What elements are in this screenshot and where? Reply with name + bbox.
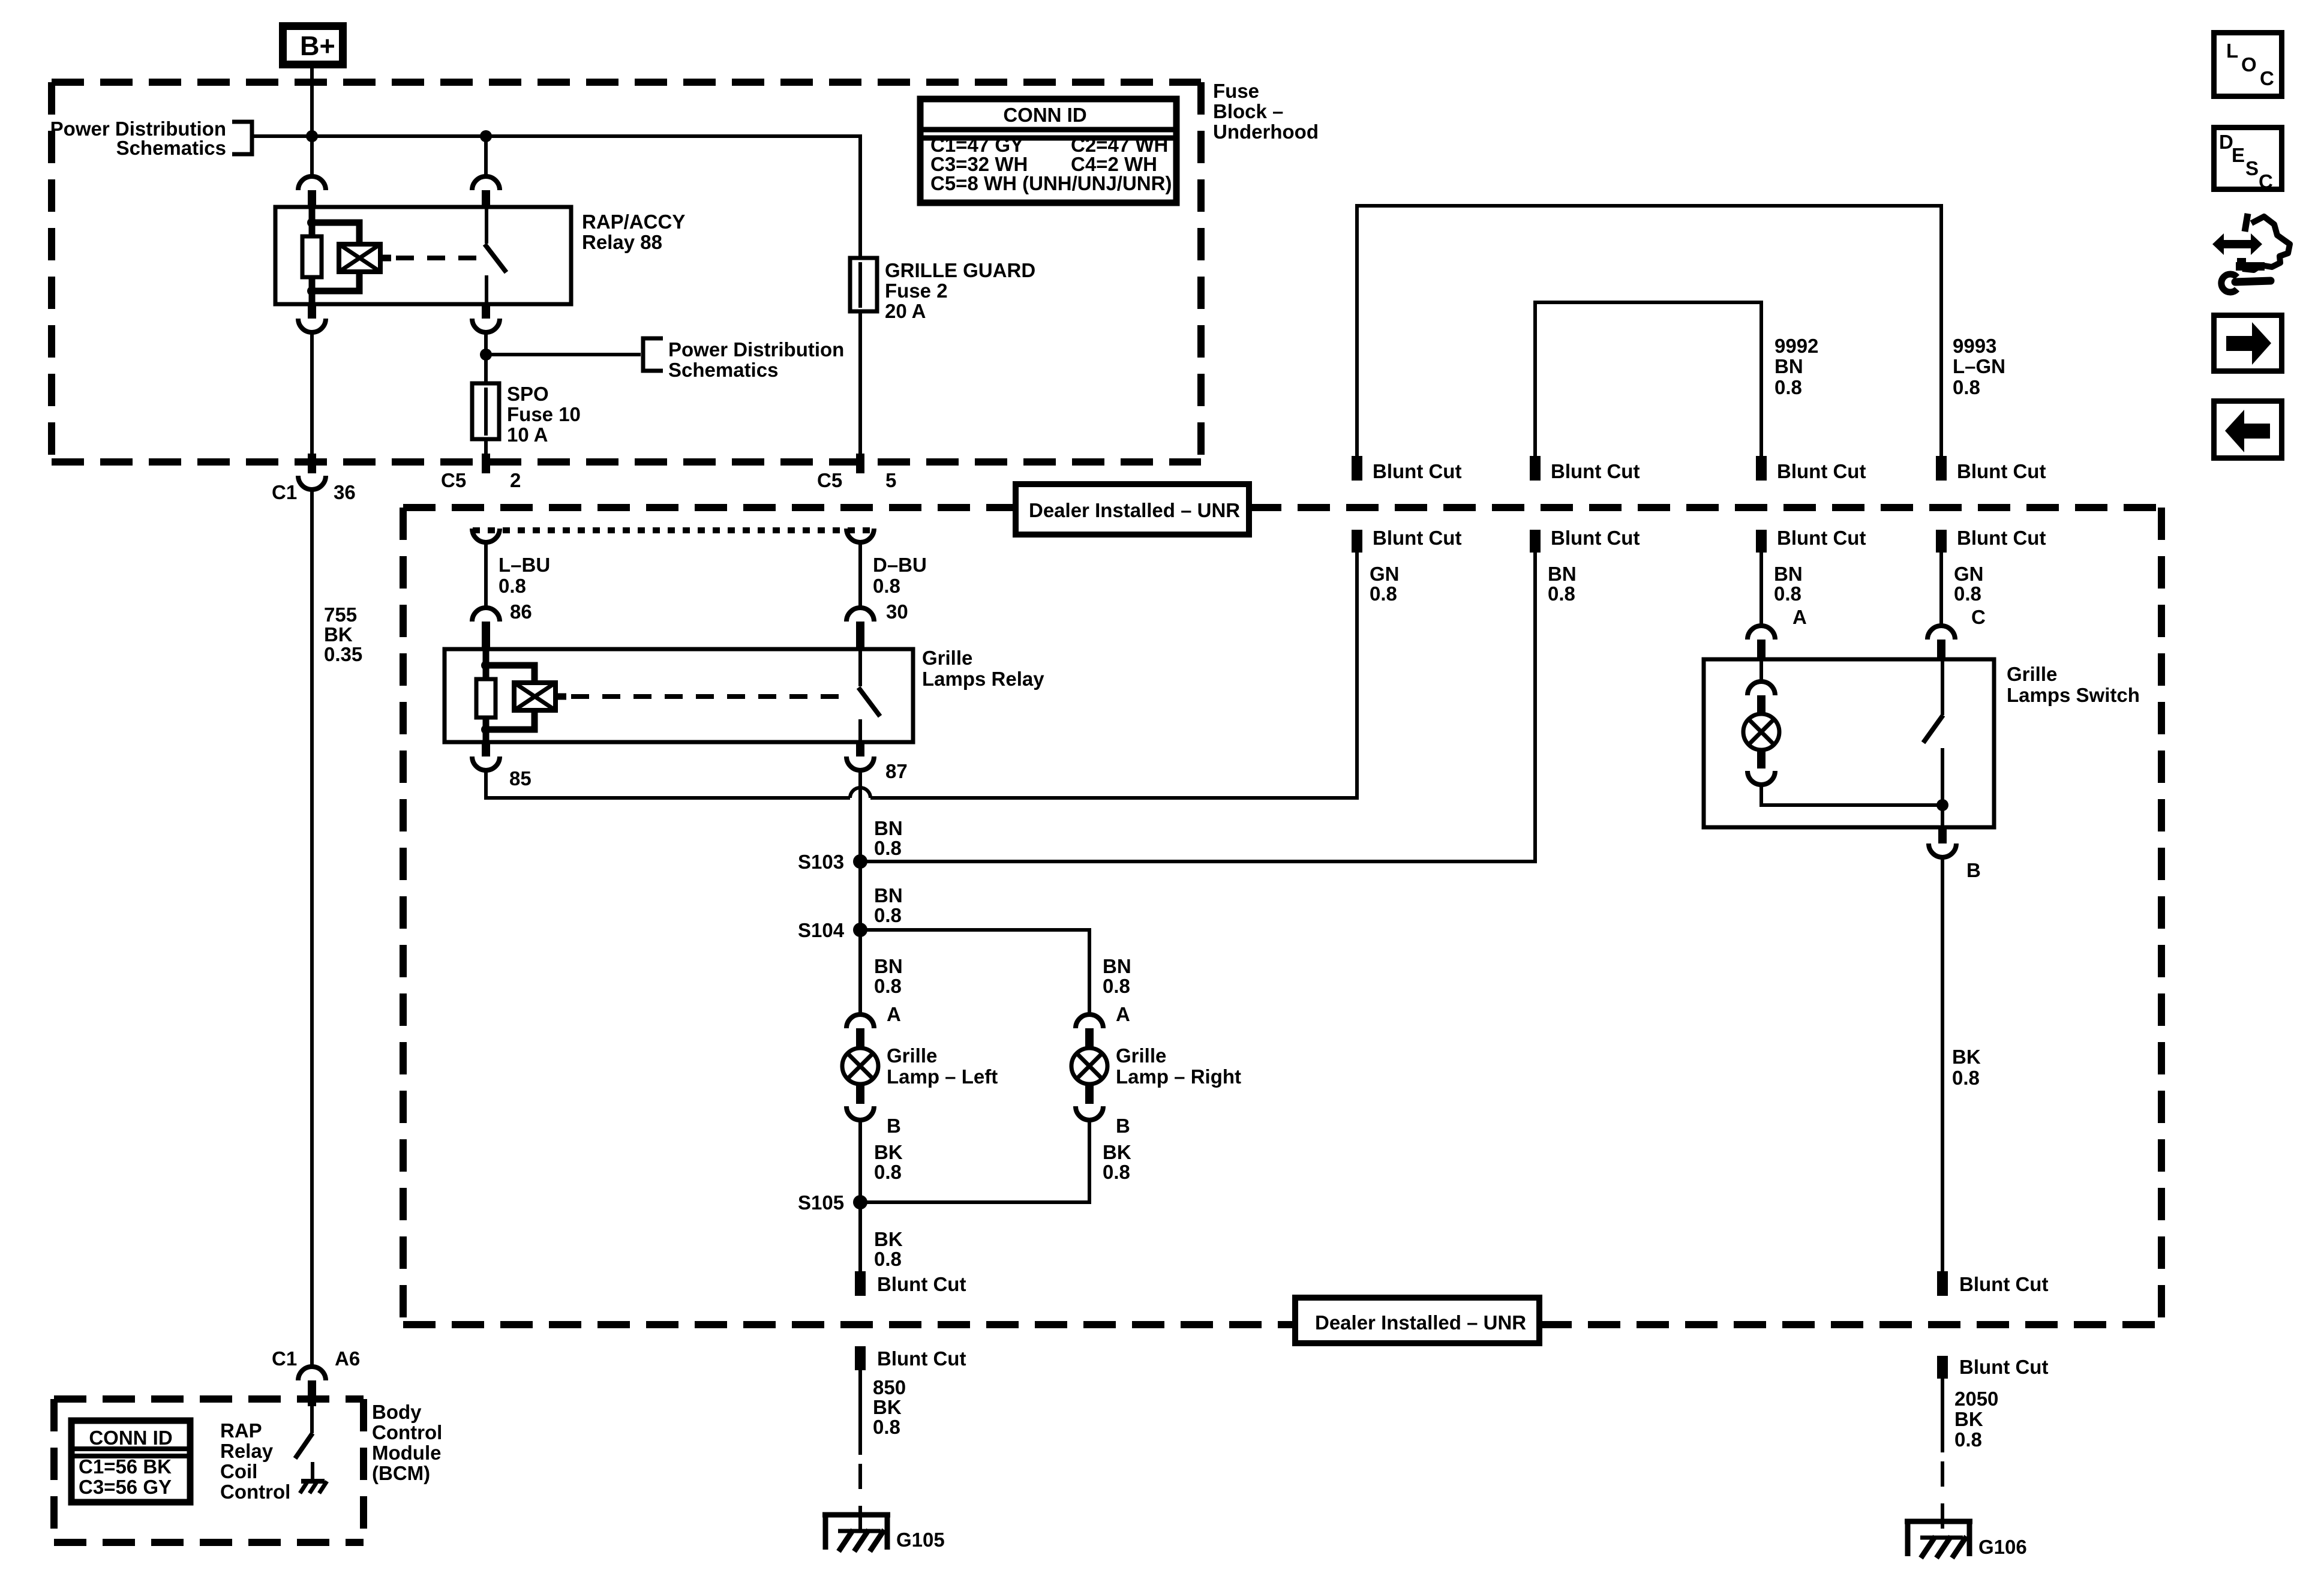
svg-text:Grille: Grille: [887, 1044, 937, 1067]
svg-text:0.8: 0.8: [1774, 583, 1801, 605]
label GRILLE GUARD Fuse 2 20 A: [885, 259, 1035, 322]
wire pin 87 to S103: [858, 770, 862, 861]
wire pin 85 to GN blunt cut: [486, 553, 1357, 798]
Grille relay switch: [858, 649, 880, 742]
svg-text:Blunt Cut: Blunt Cut: [1959, 1356, 2048, 1378]
wire RAP coil low side down to C1-36: [310, 332, 314, 454]
blunt cut terminal col3 lower: [1756, 527, 1866, 553]
ground (BCM internal): [300, 1481, 327, 1493]
svg-text:Blunt Cut: Blunt Cut: [1373, 527, 1461, 549]
icon LOC button: [2214, 33, 2282, 97]
label Grille Lamps Switch: [2007, 663, 2140, 706]
wire S103 to S104: [858, 861, 862, 930]
label D-BU 0.8: [873, 554, 927, 597]
svg-text:Control: Control: [220, 1481, 290, 1503]
node rail/relay30 junction: [480, 130, 492, 142]
connector socket C5-5 dealer side: [846, 529, 874, 542]
RAP relay control dashed link: [380, 255, 480, 262]
label SPO Fuse 10 10 A: [507, 383, 581, 446]
icon diagnostic wrench: [2212, 214, 2290, 292]
connector pin 85: [472, 742, 500, 770]
splice S105: [853, 1195, 867, 1209]
switch indicator bulb: [1743, 659, 1942, 805]
lamp Grille Lamp - Right: [1071, 1048, 1107, 1084]
label 2050 BK 0.8: [1954, 1388, 1998, 1451]
blunt cut terminal col4 lower: [1936, 527, 2046, 553]
svg-text:850: 850: [873, 1376, 906, 1398]
svg-text:GN: GN: [1954, 563, 1984, 585]
splice S104: [853, 923, 867, 937]
label C5 5: [817, 469, 896, 491]
svg-text:C5: C5: [817, 469, 842, 491]
svg-text:Coil: Coil: [220, 1460, 257, 1482]
svg-text:BN: BN: [1774, 355, 1803, 377]
node SPO branch junction: [480, 349, 492, 361]
wire col3 to switch pin A: [1759, 553, 1763, 626]
connector pin C1-A6: [298, 1367, 326, 1406]
label BN 0.8 col3: [1774, 563, 1803, 605]
svg-text:S104: S104: [798, 919, 845, 941]
connector pin below RAP relay (switch side): [472, 304, 500, 332]
label BN 0.8 (S103-S104): [874, 884, 903, 926]
svg-text:Relay 88: Relay 88: [582, 231, 662, 253]
Grille relay coil winding branch: [486, 665, 535, 730]
ground G105: [822, 1515, 890, 1551]
label Grille Lamps Relay: [922, 647, 1044, 690]
Body Control Module dashed box: [54, 1399, 364, 1542]
svg-text:2: 2: [510, 469, 521, 491]
label C1 A6: [272, 1347, 360, 1370]
connector pin 30: [846, 608, 874, 649]
svg-text:C1: C1: [272, 481, 297, 503]
bracket left PDS: [232, 122, 252, 154]
bracket right PDS: [643, 338, 663, 371]
RAP relay switch: [485, 207, 506, 304]
wire S105 to blunt cut: [858, 1202, 862, 1271]
wire S104 to left lamp: [858, 930, 862, 1014]
label box Dealer Installed - UNR (bottom): [1295, 1298, 1539, 1343]
svg-text:5: 5: [885, 469, 896, 491]
label Grille Lamp - Left: [887, 1044, 998, 1088]
svg-text:GRILLE GUARD: GRILLE GUARD: [885, 259, 1035, 281]
wire right lamp B to S105: [860, 1120, 1089, 1202]
splice S103: [853, 854, 867, 869]
svg-text:Fuse: Fuse: [1213, 80, 1259, 102]
svg-text:Grille: Grille: [1116, 1044, 1166, 1067]
svg-text:Blunt Cut: Blunt Cut: [1957, 460, 2046, 482]
svg-text:0.8: 0.8: [874, 904, 902, 926]
wire 9993 L-GN loop (outer U): [1357, 206, 1941, 456]
wire SPO fuse to C5-2: [484, 439, 488, 454]
node grille coil top: [481, 661, 491, 670]
RAP relay coil resistor: [302, 207, 322, 304]
label Fuse Block - Underhood: [1213, 80, 1319, 143]
svg-text:G106: G106: [1978, 1536, 2027, 1558]
node RAP coil bottom: [307, 286, 317, 296]
connector pin A left lamp: [846, 1014, 874, 1048]
CONN ID table (BCM): [71, 1421, 190, 1502]
svg-text:O: O: [2241, 53, 2257, 76]
svg-text:9993: 9993: [1953, 335, 1996, 357]
svg-text:A: A: [1116, 1003, 1130, 1025]
svg-text:S105: S105: [798, 1191, 844, 1214]
Grille relay coil resistor: [476, 649, 496, 742]
svg-text:L–GN: L–GN: [1953, 355, 2005, 377]
svg-text:BK: BK: [1954, 1408, 1983, 1430]
wire node to PDS bracket: [486, 353, 641, 356]
blunt cut terminal (S105 lead, inside box): [855, 1271, 966, 1296]
svg-text:CONN ID: CONN ID: [89, 1427, 172, 1449]
connector pin C1-36: [298, 454, 326, 490]
Fuse Block - Underhood dashed box: [52, 82, 1201, 462]
svg-text:Block –: Block –: [1213, 100, 1283, 122]
blunt cut terminal (ground lead 850, below box): [855, 1346, 966, 1370]
svg-text:L–BU: L–BU: [499, 554, 550, 576]
svg-text:Blunt Cut: Blunt Cut: [877, 1273, 966, 1295]
connector pin C5-5: [856, 454, 864, 473]
svg-text:C: C: [1971, 606, 1986, 628]
wire 9992 BN loop (inner U): [1535, 302, 1761, 456]
svg-text:GN: GN: [1370, 563, 1400, 585]
svg-text:B: B: [1966, 859, 1981, 881]
svg-text:A: A: [887, 1003, 901, 1025]
label BN 0.8 (left lamp): [874, 955, 903, 997]
label box Dealer Installed - UNR (top): [1016, 484, 1249, 535]
node grille coil bottom: [481, 725, 491, 734]
label BN 0.8 (right lamp): [1103, 955, 1131, 997]
svg-text:BK: BK: [1103, 1141, 1131, 1163]
svg-text:B: B: [1116, 1115, 1130, 1137]
icon back arrow button: [2214, 401, 2282, 458]
svg-text:0.8: 0.8: [1952, 1067, 1980, 1089]
wire S104 to right lamp: [860, 930, 1089, 1014]
svg-text:C1=56 BK: C1=56 BK: [79, 1455, 172, 1478]
connector pin B switch: [1929, 827, 1956, 857]
svg-text:Dealer Installed – UNR: Dealer Installed – UNR: [1315, 1311, 1526, 1334]
blunt cut terminal col2 upper: [1530, 456, 1640, 482]
svg-text:Grille: Grille: [2007, 663, 2057, 685]
svg-text:Blunt Cut: Blunt Cut: [1957, 527, 2046, 549]
label Power Distribution Schematics (right): [668, 338, 844, 381]
svg-text:0.8: 0.8: [1103, 1161, 1130, 1183]
connector pin C5-2: [482, 454, 490, 473]
svg-text:Blunt Cut: Blunt Cut: [1373, 460, 1461, 482]
svg-text:Blunt Cut: Blunt Cut: [877, 1347, 966, 1370]
wire L-BU to relay pin 86: [484, 542, 488, 608]
wire B+ to rail: [310, 68, 314, 176]
svg-text:9992: 9992: [1774, 335, 1818, 357]
blunt cut terminal col1 lower: [1352, 527, 1461, 553]
label BK 0.8 (left lamp): [874, 1141, 903, 1183]
svg-text:BN: BN: [1103, 955, 1131, 977]
label GN 0.8 col1: [1370, 563, 1400, 605]
svg-text:C1: C1: [272, 1347, 297, 1370]
svg-text:B+: B+: [300, 31, 335, 61]
svg-text:Blunt Cut: Blunt Cut: [1551, 527, 1640, 549]
svg-text:BK: BK: [1952, 1046, 1981, 1068]
label L-BU 0.8: [499, 554, 550, 597]
node rail/B+ junction: [306, 130, 318, 142]
label BK 0.8 (below S105): [874, 1228, 903, 1270]
svg-text:36: 36: [334, 481, 356, 503]
wire grille guard fuse to C5-5: [858, 311, 862, 454]
svg-text:0.8: 0.8: [499, 575, 526, 597]
svg-text:0.8: 0.8: [874, 1248, 902, 1270]
connector pin below RAP relay (coil side) to C1: [298, 304, 326, 332]
svg-text:S: S: [2245, 157, 2259, 179]
label RAP/ACCY Relay 88: [582, 211, 685, 253]
svg-text:Fuse 10: Fuse 10: [507, 403, 581, 425]
svg-text:BK: BK: [873, 1396, 902, 1418]
label Power Distribution Schematics (left): [50, 118, 226, 159]
Dealer Installed - UNR dashed box: [403, 508, 2161, 1325]
ground G106: [1905, 1521, 1972, 1558]
wire 850 BK to G105: [858, 1370, 862, 1531]
switch contact blade: [1923, 659, 1943, 827]
svg-text:BN: BN: [1774, 563, 1803, 585]
label BK 0.8 (right lamp): [1103, 1141, 1131, 1183]
svg-text:Body: Body: [372, 1401, 422, 1423]
svg-text:0.8: 0.8: [1774, 376, 1802, 398]
svg-text:Dealer Installed – UNR: Dealer Installed – UNR: [1029, 499, 1240, 521]
wire 2050 BK to G106: [1941, 1379, 1944, 1537]
svg-text:C3=56 GY: C3=56 GY: [79, 1476, 172, 1498]
svg-text:0.8: 0.8: [1953, 376, 1980, 398]
wire bus rail B+: [254, 136, 860, 258]
label 9993 L-GN 0.8: [1953, 335, 2005, 398]
label 9992 BN 0.8: [1774, 335, 1818, 398]
connector pin B right lamp: [1076, 1084, 1103, 1120]
RAP relay coil winding branch: [312, 223, 359, 291]
lamp Grille Lamp - Left: [842, 1048, 878, 1084]
icon DESC button: [2214, 128, 2282, 193]
label RAP Relay Coil Control: [220, 1419, 290, 1503]
svg-text:Grille: Grille: [922, 647, 972, 669]
wire switch B to blunt cut: [1941, 857, 1944, 1271]
connector pin 87: [846, 742, 874, 770]
svg-text:CONN ID: CONN ID: [1003, 104, 1086, 126]
svg-text:Fuse 2: Fuse 2: [885, 280, 948, 302]
wire col4 to switch pin C: [1939, 553, 1943, 626]
svg-text:C: C: [2260, 67, 2274, 89]
svg-text:BN: BN: [874, 817, 903, 839]
label BK 0.8 (switch B lead): [1952, 1046, 1981, 1089]
fuse SPO Fuse 10: [472, 383, 499, 439]
svg-text:0.8: 0.8: [873, 1416, 900, 1438]
svg-text:86: 86: [510, 601, 532, 623]
connector pin A right lamp: [1076, 1014, 1103, 1048]
svg-text:0.8: 0.8: [1954, 1428, 1982, 1451]
svg-text:E: E: [2232, 144, 2245, 166]
connector pin into RAP relay (switch side): [472, 136, 500, 207]
wire hop 85 over 87: [850, 788, 870, 798]
label Body Control Module (BCM): [372, 1401, 442, 1484]
svg-text:RAP: RAP: [220, 1419, 262, 1442]
label Grille Lamp - Right: [1116, 1044, 1241, 1088]
connector pin A switch: [1747, 626, 1775, 659]
icon forward arrow button: [2214, 316, 2282, 371]
node RAP coil top: [307, 218, 317, 227]
blunt cut terminal col1 upper: [1352, 456, 1461, 482]
connector socket C5-2 dealer side: [472, 529, 500, 542]
connector pin 86: [472, 608, 500, 649]
svg-text:Blunt Cut: Blunt Cut: [1959, 1273, 2048, 1295]
svg-text:Power Distribution: Power Distribution: [668, 338, 844, 361]
svg-text:SPO: SPO: [507, 383, 549, 405]
blunt cut terminal (ground lead 2050, below box): [1937, 1356, 2048, 1379]
wire 755 BK to BCM: [310, 490, 314, 1367]
wire S103 to BN blunt cut: [860, 553, 1535, 861]
label BN 0.8 col2: [1548, 563, 1577, 605]
svg-text:C: C: [2259, 170, 2273, 193]
svg-text:BN: BN: [1548, 563, 1577, 585]
relay RAP/ACCY Relay 88 box: [275, 207, 571, 304]
svg-text:20 A: 20 A: [885, 300, 926, 322]
wire RAP switch to SPO node: [484, 332, 488, 383]
svg-text:BN: BN: [874, 884, 903, 906]
svg-text:10 A: 10 A: [507, 424, 548, 446]
svg-text:BK: BK: [874, 1141, 903, 1163]
svg-text:0.8: 0.8: [873, 575, 900, 597]
fuse GRILLE GUARD Fuse 2: [850, 258, 877, 311]
blunt cut terminal (switch B lead, inside box): [1937, 1271, 2048, 1296]
svg-text:(BCM): (BCM): [372, 1462, 430, 1484]
svg-text:Lamp – Left: Lamp – Left: [887, 1065, 998, 1088]
svg-text:RAP/ACCY: RAP/ACCY: [582, 211, 685, 233]
svg-text:C5: C5: [441, 469, 466, 491]
CONN ID table (fuse block): [920, 99, 1176, 203]
svg-text:Blunt Cut: Blunt Cut: [1777, 527, 1866, 549]
BCM internal driver switch: [295, 1406, 313, 1481]
svg-text:Lamps Relay: Lamps Relay: [922, 668, 1044, 690]
svg-text:Schematics: Schematics: [116, 137, 226, 159]
svg-text:A6: A6: [335, 1347, 360, 1370]
label GN 0.8 col4: [1954, 563, 1984, 605]
svg-text:85: 85: [509, 767, 532, 789]
Grille relay control dashed link: [556, 694, 849, 700]
svg-text:Lamp – Right: Lamp – Right: [1116, 1065, 1241, 1088]
blunt cut terminal col2 lower: [1530, 527, 1640, 553]
blunt cut terminal col3 upper: [1756, 456, 1866, 482]
svg-text:B: B: [887, 1115, 901, 1137]
wire left lamp B to S105: [858, 1120, 862, 1202]
svg-text:C5=8 WH (UNH/UNJ/UNR): C5=8 WH (UNH/UNJ/UNR): [930, 172, 1172, 194]
node switch output junction: [1936, 799, 1948, 811]
svg-text:G105: G105: [896, 1529, 945, 1551]
connector pin into RAP relay (coil side): [298, 176, 326, 207]
svg-text:0.8: 0.8: [1103, 975, 1130, 997]
label 850 BK 0.8: [873, 1376, 906, 1438]
svg-text:0.8: 0.8: [1370, 583, 1397, 605]
svg-text:755: 755: [324, 604, 357, 626]
Grille relay coil symbol: [514, 683, 556, 710]
blunt cut terminal col4 upper: [1936, 456, 2046, 482]
svg-text:0.8: 0.8: [874, 975, 902, 997]
svg-text:0.8: 0.8: [1548, 583, 1575, 605]
svg-text:Blunt Cut: Blunt Cut: [1777, 460, 1866, 482]
svg-text:BK: BK: [874, 1228, 903, 1250]
label C5 2: [441, 469, 521, 491]
svg-text:Schematics: Schematics: [668, 359, 778, 381]
connector pin B left lamp: [846, 1084, 874, 1120]
svg-text:L: L: [2226, 40, 2238, 62]
label BN 0.8 (above S103): [874, 817, 903, 859]
relay Grille Lamps Relay box: [445, 649, 913, 742]
svg-text:87: 87: [885, 760, 908, 782]
connector pin C switch: [1927, 626, 1955, 659]
svg-text:A: A: [1792, 606, 1807, 628]
label C1 36: [272, 481, 356, 503]
RAP relay coil symbol: [339, 244, 380, 272]
svg-text:0.8: 0.8: [874, 837, 902, 859]
svg-text:S103: S103: [798, 851, 844, 873]
switch Grille Lamps Switch box: [1704, 659, 1994, 827]
wire D-BU to relay pin 30: [858, 542, 862, 608]
svg-text:Underhood: Underhood: [1213, 121, 1319, 143]
svg-text:Relay: Relay: [220, 1440, 274, 1462]
svg-text:BN: BN: [874, 955, 903, 977]
svg-text:0.8: 0.8: [874, 1161, 902, 1183]
B+ power symbol: [283, 26, 343, 65]
svg-text:BK: BK: [324, 623, 353, 646]
label 755 BK 0.35: [324, 604, 362, 665]
svg-text:D–BU: D–BU: [873, 554, 927, 576]
svg-text:Module: Module: [372, 1442, 441, 1464]
svg-text:2050: 2050: [1954, 1388, 1998, 1410]
svg-text:Blunt Cut: Blunt Cut: [1551, 460, 1640, 482]
svg-text:Lamps Switch: Lamps Switch: [2007, 684, 2140, 706]
svg-text:Control: Control: [372, 1421, 442, 1443]
svg-text:30: 30: [886, 601, 908, 623]
svg-text:0.35: 0.35: [324, 643, 362, 665]
connector C5 mating halves dotted link: [473, 527, 873, 533]
svg-text:0.8: 0.8: [1954, 583, 1981, 605]
